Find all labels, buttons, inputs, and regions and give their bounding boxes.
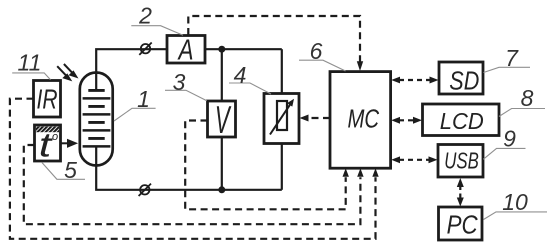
wire: ammeter output to load, node bus — [205, 48, 282, 50]
IR radiation arrows toward battery — [57, 64, 76, 80]
callout label 11 (IR sensor) — [12, 50, 50, 80]
SD card block (item 7) — [439, 62, 483, 95]
callout label 7 (SD) — [484, 45, 531, 73]
wire: top bus down to electronic load — [281, 49, 283, 93]
USB block (item 9) — [438, 145, 483, 178]
control line: ammeter to MC top pin (dashed) — [188, 16, 363, 71]
signal line: temperature sensor to MC bottom pin 2 (dashed) — [24, 145, 364, 224]
ammeter A (item 2) — [167, 35, 205, 67]
wire: voltmeter bottom to bottom bus — [221, 137, 223, 190]
microcontroller MC (item 6) — [330, 72, 391, 169]
svg-text:9: 9 — [503, 126, 516, 152]
svg-text:1: 1 — [137, 86, 150, 112]
bus: USB to PC (dashed double arrow) — [457, 178, 464, 207]
connector X2 (circle-slash) on bottom wire — [139, 184, 151, 196]
junction node (bottom) — [218, 186, 225, 193]
callout label 5 (temperature sensor) — [42, 157, 85, 183]
svg-text:LCD: LCD — [440, 108, 484, 134]
svg-text:A: A — [177, 35, 194, 67]
bus: MC to SD (dashed double arrow) — [391, 77, 438, 84]
voltmeter V (item 3) — [208, 99, 236, 142]
svg-text:11: 11 — [18, 50, 42, 76]
LCD block (item 8) — [423, 104, 500, 136]
bus: MC to USB (dashed double arrow) — [391, 156, 437, 163]
wire: electronic load bottom to bottom bus — [281, 144, 283, 190]
callout label 4 (electronic load) — [229, 62, 271, 94]
svg-text:PC: PC — [447, 210, 478, 240]
callout label 9 (USB) — [483, 126, 525, 160]
svg-text:MC: MC — [348, 103, 380, 133]
wire: node to voltmeter top — [221, 49, 223, 101]
callout label 10 (PC) — [484, 189, 548, 220]
callout label 2 (ammeter) — [131, 3, 183, 36]
callout label 6 (MC) — [299, 38, 346, 71]
wire: battery positive terminal up and right to ammeter — [96, 49, 167, 90]
junction node (top) — [218, 46, 225, 53]
svg-text:6: 6 — [310, 38, 323, 64]
IR sensor block (item 11) — [34, 81, 61, 118]
svg-text:3: 3 — [173, 69, 186, 95]
svg-text:o: o — [52, 131, 58, 143]
bus: MC to LCD (dashed double arrow) — [391, 117, 422, 124]
svg-text:8: 8 — [521, 85, 534, 111]
svg-text:10: 10 — [502, 189, 528, 215]
callout label 8 (LCD) — [499, 85, 545, 117]
svg-text:USB: USB — [444, 148, 479, 174]
svg-text:5: 5 — [64, 157, 77, 183]
control line: MC to electronic load (dashed, arrow left) — [300, 115, 331, 122]
svg-text:4: 4 — [234, 62, 247, 88]
electronic load R1, controlled variable resistor (item 4) — [264, 94, 299, 144]
callout label 3 (voltmeter) — [165, 69, 207, 101]
PC block (item 10) — [439, 207, 483, 240]
temperature sensor t° (item 5) — [35, 125, 61, 164]
arrow: temperature sensor to battery — [61, 140, 76, 146]
svg-text:SD: SD — [449, 65, 479, 95]
wire: battery negative terminal down and right (bottom bus) — [96, 146, 282, 189]
battery GB1 (item 1, accumulator) — [80, 73, 113, 166]
svg-text:IR: IR — [37, 83, 58, 114]
svg-text:2: 2 — [138, 3, 152, 29]
svg-text:V: V — [215, 99, 232, 142]
svg-text:7: 7 — [505, 45, 519, 71]
signal line: voltmeter to MC bottom pin 1 (dashed) — [185, 121, 349, 210]
callout label 1 (battery) — [114, 86, 156, 121]
signal line: IR sensor to MC bottom pin 3 (dashed) — [10, 99, 379, 239]
connector X1 (circle-slash) on top wire — [139, 43, 151, 55]
